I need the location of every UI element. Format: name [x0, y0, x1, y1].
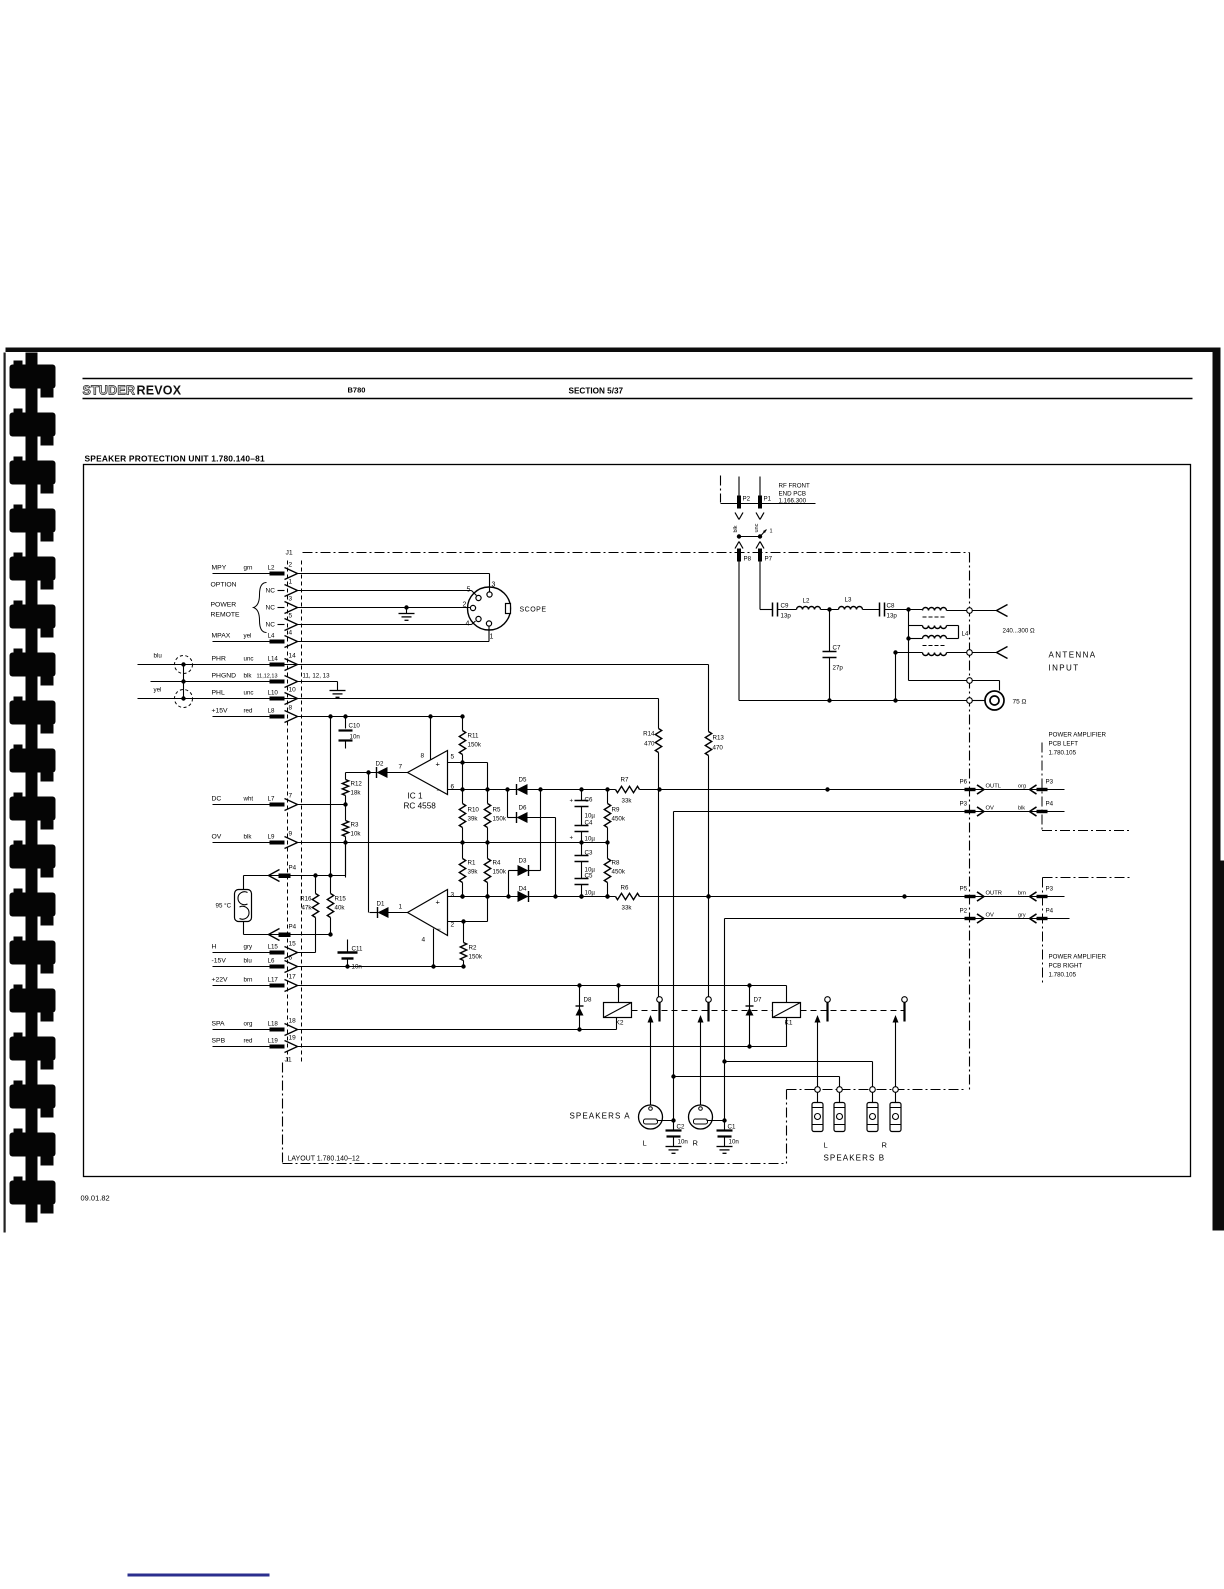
- svg-text:+: +: [436, 760, 441, 769]
- svg-text:L2: L2: [803, 598, 810, 605]
- svg-text:4: 4: [466, 621, 470, 628]
- svg-text:gry: gry: [1018, 913, 1026, 919]
- svg-text:R11: R11: [468, 733, 479, 740]
- svg-text:−: −: [437, 786, 442, 795]
- svg-text:3: 3: [289, 596, 293, 603]
- svg-text:5: 5: [289, 613, 293, 620]
- svg-text:blu: blu: [244, 958, 253, 965]
- svg-text:D2: D2: [376, 761, 384, 768]
- svg-text:L14: L14: [268, 656, 279, 663]
- svg-text:150k: 150k: [469, 954, 483, 961]
- svg-text:red: red: [244, 708, 254, 715]
- svg-text:-15V: -15V: [212, 958, 227, 965]
- svg-text:PCB LEFT: PCB LEFT: [1049, 741, 1079, 748]
- svg-text:P4: P4: [289, 865, 297, 872]
- svg-text:OPTION: OPTION: [211, 582, 237, 589]
- svg-text:END PCB: END PCB: [779, 491, 807, 498]
- svg-text:39k: 39k: [468, 869, 479, 876]
- svg-text:33k: 33k: [622, 798, 633, 805]
- svg-text:PCB RIGHT: PCB RIGHT: [1049, 963, 1083, 970]
- svg-text:11, 12, 13: 11, 12, 13: [303, 673, 331, 680]
- svg-text:10k: 10k: [351, 831, 362, 838]
- svg-text:unc: unc: [244, 656, 254, 663]
- svg-text:L7: L7: [268, 796, 275, 803]
- svg-text:org: org: [1018, 784, 1026, 790]
- svg-text:P3: P3: [1046, 779, 1054, 786]
- svg-text:L8: L8: [268, 708, 275, 715]
- svg-text:40k: 40k: [335, 905, 346, 912]
- svg-text:R10: R10: [468, 807, 480, 814]
- svg-text:R12: R12: [351, 781, 363, 788]
- svg-text:P6: P6: [960, 779, 968, 786]
- svg-text:NC: NC: [266, 622, 276, 629]
- svg-text:P8: P8: [744, 556, 752, 563]
- svg-text:P7: P7: [765, 556, 773, 563]
- svg-text:P3: P3: [960, 801, 968, 808]
- svg-text:MPY: MPY: [212, 565, 227, 572]
- svg-text:1.166.300: 1.166.300: [779, 498, 807, 505]
- svg-text:R: R: [693, 1139, 699, 1148]
- svg-text:R4: R4: [493, 860, 501, 867]
- svg-text:18: 18: [289, 1018, 297, 1025]
- svg-text:L9: L9: [268, 834, 275, 841]
- svg-text:H: H: [212, 944, 217, 951]
- svg-text:blu: blu: [154, 653, 163, 660]
- svg-text:D8: D8: [584, 997, 592, 1004]
- svg-text:7: 7: [289, 793, 293, 800]
- svg-text:unc: unc: [244, 690, 254, 697]
- svg-text:9: 9: [289, 831, 293, 838]
- svg-text:27p: 27p: [833, 665, 844, 672]
- svg-text:DC: DC: [212, 796, 222, 803]
- svg-text:L: L: [643, 1139, 647, 1148]
- svg-text:K1: K1: [785, 1020, 793, 1027]
- svg-text:D5: D5: [519, 777, 527, 784]
- svg-text:19: 19: [289, 1035, 297, 1042]
- svg-text:1: 1: [770, 529, 773, 535]
- svg-text:P4: P4: [289, 924, 297, 931]
- svg-text:470: 470: [713, 745, 724, 752]
- svg-text:09.01.82: 09.01.82: [81, 1194, 110, 1203]
- svg-text:OV: OV: [986, 806, 995, 812]
- svg-text:150k: 150k: [493, 869, 507, 876]
- svg-text:4: 4: [422, 937, 426, 944]
- svg-text:NC: NC: [266, 588, 276, 595]
- svg-text:450k: 450k: [612, 869, 626, 876]
- svg-text:L10: L10: [268, 690, 279, 697]
- svg-text:1: 1: [399, 904, 403, 911]
- svg-text:P4: P4: [1046, 801, 1054, 808]
- svg-text:R1: R1: [468, 860, 476, 867]
- svg-text:yel: yel: [244, 633, 252, 640]
- svg-text:4: 4: [289, 630, 293, 637]
- svg-text:SPEAKERS A: SPEAKERS A: [570, 1112, 631, 1121]
- svg-text:OV: OV: [212, 834, 222, 841]
- svg-text:PHR: PHR: [212, 656, 226, 663]
- svg-text:blk: blk: [733, 525, 739, 532]
- svg-text:13p: 13p: [887, 613, 898, 620]
- svg-text:OUTL: OUTL: [986, 784, 1002, 790]
- svg-text:P3: P3: [1046, 886, 1054, 893]
- svg-text:C9: C9: [781, 603, 789, 610]
- svg-text:3: 3: [451, 892, 455, 899]
- svg-text:7: 7: [399, 764, 403, 771]
- svg-text:yel: yel: [154, 687, 162, 694]
- svg-text:R16: R16: [300, 896, 312, 903]
- svg-text:5: 5: [467, 587, 471, 594]
- svg-text:15: 15: [289, 941, 297, 948]
- svg-text:R3: R3: [351, 822, 359, 829]
- svg-text:R13: R13: [713, 735, 725, 742]
- svg-text:R8: R8: [612, 860, 620, 867]
- svg-text:J1: J1: [286, 550, 293, 557]
- svg-text:10n: 10n: [729, 1139, 740, 1146]
- svg-text:+: +: [570, 836, 574, 842]
- svg-text:10: 10: [289, 687, 297, 694]
- svg-text:L2: L2: [268, 565, 275, 572]
- svg-text:17: 17: [289, 974, 297, 981]
- svg-text:95 °C: 95 °C: [216, 903, 232, 910]
- svg-text:8: 8: [421, 753, 425, 760]
- svg-text:470: 470: [644, 741, 655, 748]
- svg-text:C8: C8: [887, 603, 895, 610]
- svg-text:75 Ω: 75 Ω: [1013, 699, 1027, 706]
- svg-text:2: 2: [289, 562, 293, 569]
- svg-text:brn: brn: [1018, 891, 1026, 897]
- svg-text:33k: 33k: [622, 905, 633, 912]
- svg-text:1.780.105: 1.780.105: [1049, 972, 1077, 979]
- svg-text:+: +: [570, 799, 574, 805]
- svg-text:ANTENNA: ANTENNA: [1049, 651, 1097, 660]
- svg-text:450k: 450k: [612, 816, 626, 823]
- svg-text:R2: R2: [469, 945, 477, 952]
- svg-text:+22V: +22V: [212, 977, 229, 984]
- svg-text:8: 8: [289, 705, 293, 712]
- svg-text:SPEAKER PROTECTION UNIT 1.78: SPEAKER PROTECTION UNIT 1.780.140–81: [85, 454, 265, 464]
- svg-text:B780: B780: [348, 386, 366, 395]
- svg-text:brn: brn: [244, 977, 254, 984]
- svg-text:P2: P2: [960, 908, 968, 915]
- svg-text:PHL: PHL: [212, 690, 225, 697]
- svg-text:3: 3: [492, 582, 496, 589]
- svg-text:C3: C3: [585, 850, 593, 857]
- svg-text:150k: 150k: [468, 742, 482, 749]
- svg-text:blk: blk: [244, 673, 253, 680]
- svg-text:L3: L3: [845, 597, 852, 604]
- svg-text:RF FRONT: RF FRONT: [779, 483, 810, 490]
- svg-text:D6: D6: [519, 805, 527, 812]
- svg-text:SPB: SPB: [212, 1038, 226, 1045]
- svg-text:47k: 47k: [302, 905, 313, 912]
- svg-text:SECTION 5/37: SECTION 5/37: [569, 387, 624, 396]
- svg-text:10n: 10n: [350, 734, 361, 741]
- svg-text:10n: 10n: [678, 1139, 689, 1146]
- svg-text:grn: grn: [244, 565, 254, 572]
- svg-text:red: red: [244, 1038, 254, 1045]
- svg-text:REMOTE: REMOTE: [211, 612, 241, 619]
- svg-text:+: +: [436, 898, 441, 907]
- svg-text:L15: L15: [268, 944, 279, 951]
- svg-text:−: −: [437, 925, 442, 934]
- svg-text:2: 2: [463, 602, 467, 609]
- svg-text:10µ: 10µ: [585, 836, 596, 843]
- svg-text:POWER AMPLIFIER: POWER AMPLIFIER: [1049, 732, 1107, 739]
- svg-text:6: 6: [289, 955, 293, 962]
- svg-text:INPUT: INPUT: [1049, 664, 1080, 673]
- svg-text:POWER AMPLIFIER: POWER AMPLIFIER: [1049, 954, 1107, 961]
- svg-text:L6: L6: [268, 958, 275, 965]
- svg-text:SPEAKERS B: SPEAKERS B: [824, 1154, 886, 1163]
- svg-text:1.780.105: 1.780.105: [1049, 750, 1077, 757]
- svg-text:10µ: 10µ: [585, 890, 596, 897]
- svg-text:39k: 39k: [468, 816, 479, 823]
- svg-text:REVOX: REVOX: [137, 384, 182, 398]
- svg-text:J1: J1: [285, 1057, 292, 1064]
- svg-text:R6: R6: [621, 885, 629, 892]
- svg-text:2: 2: [451, 922, 455, 929]
- svg-text:10n: 10n: [352, 964, 363, 971]
- svg-text:13p: 13p: [781, 613, 792, 620]
- svg-text:L4: L4: [268, 633, 275, 640]
- svg-text:D3: D3: [519, 858, 527, 865]
- svg-text:150k: 150k: [493, 816, 507, 823]
- svg-text:10µ: 10µ: [585, 813, 596, 820]
- svg-text:L17: L17: [268, 977, 279, 984]
- svg-text:R14: R14: [643, 731, 655, 738]
- svg-text:P2: P2: [743, 496, 751, 503]
- svg-text:C5: C5: [585, 873, 593, 880]
- svg-text:MPAX: MPAX: [212, 633, 231, 640]
- svg-text:D1: D1: [377, 901, 385, 908]
- svg-text:gry: gry: [244, 944, 254, 951]
- svg-text:C10: C10: [349, 723, 361, 730]
- svg-text:P4: P4: [1046, 908, 1054, 915]
- svg-text:C6: C6: [585, 797, 593, 804]
- svg-text:blk: blk: [244, 834, 253, 841]
- svg-text:L: L: [824, 1141, 828, 1150]
- svg-text:blk: blk: [1018, 806, 1025, 812]
- svg-text:unc: unc: [754, 523, 760, 532]
- svg-text:240...300 Ω: 240...300 Ω: [1003, 628, 1036, 635]
- svg-text:L18: L18: [268, 1021, 279, 1028]
- svg-text:org: org: [244, 1021, 254, 1028]
- svg-text:D4: D4: [519, 886, 527, 893]
- svg-text:R15: R15: [335, 896, 347, 903]
- svg-text:C7: C7: [833, 645, 841, 652]
- svg-text:NC: NC: [266, 605, 276, 612]
- svg-text:1: 1: [289, 579, 293, 586]
- svg-text:1: 1: [490, 634, 494, 641]
- svg-text:LAYOUT 1.780.140–12: LAYOUT 1.780.140–12: [288, 1156, 360, 1163]
- svg-text:+15V: +15V: [212, 708, 229, 715]
- svg-text:wht: wht: [243, 796, 254, 803]
- svg-text:D7: D7: [754, 997, 762, 1004]
- svg-text:P1: P1: [764, 496, 772, 503]
- svg-text:OUTR: OUTR: [986, 891, 1002, 897]
- svg-text:L19: L19: [268, 1038, 279, 1045]
- svg-text:C2: C2: [677, 1124, 685, 1131]
- svg-text:SPA: SPA: [212, 1021, 226, 1028]
- svg-text:R: R: [882, 1141, 888, 1150]
- svg-text:OV: OV: [986, 913, 995, 919]
- svg-text:PHGND: PHGND: [212, 673, 237, 680]
- svg-text:R9: R9: [612, 807, 620, 814]
- svg-text:STUDER: STUDER: [83, 384, 136, 398]
- svg-text:RC 4558: RC 4558: [404, 802, 437, 811]
- svg-text:C1: C1: [728, 1124, 736, 1131]
- svg-text:IC 1: IC 1: [408, 792, 423, 801]
- svg-text:R7: R7: [621, 777, 629, 784]
- svg-text:P5: P5: [960, 886, 968, 893]
- svg-text:L4: L4: [962, 631, 969, 638]
- svg-text:11,12,13: 11,12,13: [257, 674, 278, 680]
- svg-text:5: 5: [451, 754, 455, 761]
- svg-text:18k: 18k: [351, 790, 362, 797]
- svg-text:POWER: POWER: [211, 602, 237, 609]
- svg-text:14: 14: [289, 653, 297, 660]
- svg-text:C4: C4: [585, 820, 593, 827]
- svg-text:SCOPE: SCOPE: [520, 607, 547, 614]
- svg-text:R5: R5: [493, 807, 501, 814]
- svg-text:C11: C11: [352, 946, 363, 953]
